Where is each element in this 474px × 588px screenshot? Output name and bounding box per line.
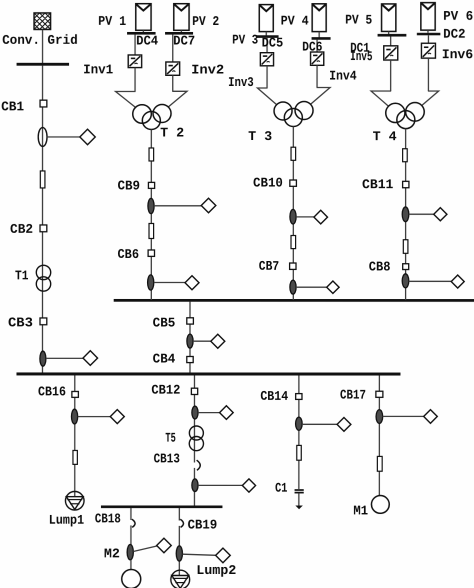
svg-text:T5: T5 xyxy=(165,431,176,446)
measurement diamond xyxy=(424,410,438,424)
line reactor on CB14 chain xyxy=(297,445,302,460)
wire to diamond xyxy=(154,205,202,207)
wire to diamond (slanted) xyxy=(133,546,157,552)
CT ellipse on CB16 chain xyxy=(71,409,77,424)
svg-text:PV 3: PV 3 xyxy=(232,32,258,47)
svg-text:CB1: CB1 xyxy=(1,99,24,114)
CT ellipse on T3 feeder upper xyxy=(290,209,296,224)
svg-text:CB6: CB6 xyxy=(118,247,140,262)
svg-text:CB17: CB17 xyxy=(340,388,366,403)
wire Inv4 down xyxy=(316,65,318,87)
CT ellipse on T4 feeder upper xyxy=(402,207,409,222)
terminal DC7 xyxy=(165,32,193,35)
wire bus B3 to Lump2 xyxy=(178,508,180,576)
svg-text:Lump2: Lump2 xyxy=(196,563,236,578)
PV panel PV 1 xyxy=(136,4,151,31)
wire to measurement diamond xyxy=(46,357,84,359)
inverter Inv6 xyxy=(421,43,435,58)
wire DC6 to inverter Inv4 xyxy=(316,39,318,52)
transformer T4 xyxy=(386,103,425,129)
svg-text:CB12: CB12 xyxy=(151,383,180,398)
PV panel PV 5 xyxy=(382,4,396,32)
breaker CB3 xyxy=(40,318,47,325)
wire DC5 to inverter Inv3 xyxy=(266,38,268,53)
svg-text:CB8: CB8 xyxy=(369,259,391,274)
svg-text:PV 6: PV 6 xyxy=(443,9,473,24)
svg-text:CB16: CB16 xyxy=(38,384,66,399)
wire Inv1 down xyxy=(134,68,136,92)
wire Inv3 down xyxy=(266,66,268,88)
breaker CB12 xyxy=(191,388,197,394)
PV panel PV 6 xyxy=(421,3,435,31)
motor M1 (circle) xyxy=(371,496,389,514)
wire to diamond xyxy=(193,340,211,342)
svg-text:CB18: CB18 xyxy=(95,511,121,526)
wire bus B3 to M2 xyxy=(130,508,132,545)
terminal DC1 xyxy=(378,34,407,37)
wire to diamond xyxy=(296,286,327,288)
wire to diamond xyxy=(198,484,243,486)
breaker CB10 xyxy=(290,180,297,186)
wire jog right into T3 xyxy=(311,88,331,105)
wire jog right into T2 xyxy=(168,91,187,107)
breaker CB11 xyxy=(403,181,409,187)
inverter Inv3 xyxy=(260,53,273,66)
wire main bus to C1 (CB14 chain) xyxy=(298,376,300,490)
transformer T5 xyxy=(189,426,203,451)
svg-text:Lump1: Lump1 xyxy=(49,513,84,528)
wire jog left into T4 xyxy=(371,91,391,106)
measurement diamond xyxy=(83,351,98,366)
CT ellipse (open) on CB1 feeder xyxy=(38,128,47,147)
breaker CB14 xyxy=(296,394,302,400)
svg-text:DC5: DC5 xyxy=(262,36,284,51)
svg-text:Inv1: Inv1 xyxy=(83,62,113,77)
capacitor C1 plates xyxy=(295,489,304,491)
wire Inv6 down xyxy=(427,58,429,91)
line reactor on T4 feeder xyxy=(403,149,408,162)
wire to diamond xyxy=(154,281,185,283)
measurement diamond xyxy=(185,276,199,290)
line reactor on T2 feeder lower xyxy=(149,223,154,238)
wire PV2 to DC7 terminal xyxy=(180,30,182,32)
wire T3 to bus B2 xyxy=(292,127,294,301)
transformer T1 xyxy=(36,265,50,291)
wire to diamond xyxy=(383,415,424,417)
wire DC7 to inverter Inv2 xyxy=(172,34,174,62)
breaker CB4 xyxy=(187,356,193,362)
svg-text:T 2: T 2 xyxy=(160,125,184,140)
svg-text:T1: T1 xyxy=(15,268,29,283)
wire to diamond xyxy=(182,554,216,555)
breaker CB1 xyxy=(40,100,47,107)
svg-text:CB11: CB11 xyxy=(362,177,393,192)
measurement diamond xyxy=(242,479,255,492)
wire to diamond xyxy=(78,416,111,418)
wire Inv2 down xyxy=(172,75,174,91)
measurement diamond xyxy=(201,198,216,213)
wire to diamond xyxy=(198,412,220,414)
svg-text:Inv4: Inv4 xyxy=(329,69,357,84)
svg-text:DC7: DC7 xyxy=(173,33,195,48)
breaker CB6 xyxy=(148,250,154,256)
open switch CB19 (arc) xyxy=(177,519,183,527)
svg-text:C1: C1 xyxy=(275,481,287,496)
svg-text:CB5: CB5 xyxy=(153,316,176,331)
open switch CB13 (arc) xyxy=(193,460,200,470)
svg-text:M1: M1 xyxy=(353,503,368,518)
inverter Inv2 xyxy=(166,62,180,75)
svg-text:CB4: CB4 xyxy=(153,352,176,367)
svg-text:PV 4: PV 4 xyxy=(281,14,309,29)
svg-text:CB13: CB13 xyxy=(154,451,180,466)
PV panel PV 4 xyxy=(312,4,326,32)
svg-text:T 3: T 3 xyxy=(248,129,272,144)
measurement diamond xyxy=(157,538,172,553)
wire to diamond xyxy=(296,216,314,218)
svg-text:CB14: CB14 xyxy=(260,389,288,404)
inverter Inv5 xyxy=(384,46,398,60)
measurement diamond xyxy=(216,548,231,563)
lamp Lump1 xyxy=(65,491,84,510)
wire PV3 to DC5 terminal xyxy=(265,32,267,36)
transformer T2 xyxy=(133,104,171,129)
svg-text:CB7: CB7 xyxy=(259,259,279,274)
open switch CB18 (arc) xyxy=(129,519,135,527)
wire T2 to bus B2 xyxy=(150,129,152,300)
measurement diamond xyxy=(110,410,124,424)
measurement diamond xyxy=(80,129,95,144)
svg-text:PV 5: PV 5 xyxy=(345,13,372,28)
measurement diamond xyxy=(314,210,328,224)
CT ellipse on T2 feeder lower xyxy=(148,275,154,290)
breaker CB16 xyxy=(72,391,79,397)
breaker CB7 xyxy=(290,263,296,269)
wire main bus to M1 (CB17 chain) xyxy=(378,376,380,496)
svg-text:CB10: CB10 xyxy=(253,176,283,191)
PV panel PV 2 xyxy=(174,4,189,31)
svg-text:CB2: CB2 xyxy=(10,222,33,237)
measurement diamond xyxy=(434,208,447,221)
terminal DC6 xyxy=(312,37,331,40)
wire main bus to bus B3 (CB12/T5 chain) xyxy=(193,375,195,506)
CT ellipse on CB12 chain xyxy=(192,406,198,419)
wire PV1 to DC4 terminal xyxy=(142,30,144,32)
terminal DC5 xyxy=(256,35,279,38)
line reactor on T3 feeder xyxy=(291,147,296,160)
wire PV5 to DC1 terminal xyxy=(388,31,390,34)
CT ellipse on CB5 chain xyxy=(187,334,193,348)
breaker CB9 xyxy=(148,182,154,188)
terminal DC4 xyxy=(127,32,156,35)
inverter Inv4 xyxy=(311,52,324,65)
line reactor on T3 feeder lower xyxy=(291,236,296,249)
wire DC4 to inverter Inv1 xyxy=(134,34,136,55)
svg-text:DC6: DC6 xyxy=(302,40,322,55)
svg-text:Inv2: Inv2 xyxy=(191,62,224,77)
wire capacitor to ground arrow xyxy=(298,493,300,505)
bus B1 (Conv. Grid bus) xyxy=(17,63,70,66)
CT ellipse on CB14 chain xyxy=(296,417,303,430)
line reactor on CB17 chain xyxy=(377,456,382,471)
wire PV4 to DC6 terminal xyxy=(318,32,320,38)
CT ellipse on CB13 chain xyxy=(192,479,198,492)
svg-text:DC4: DC4 xyxy=(136,33,158,48)
measurement diamond xyxy=(337,418,351,432)
breaker CB5 xyxy=(187,318,194,324)
external grid Conv. Grid xyxy=(18,13,68,30)
measurement diamond xyxy=(451,275,464,288)
CT ellipse on T3 feeder lower xyxy=(290,280,296,294)
CT ellipse (filled) on CB3 feeder xyxy=(40,351,46,366)
CT ellipse on CB17 chain xyxy=(376,410,383,424)
wire T4 to bus B2 xyxy=(405,129,407,300)
line reactor symbol xyxy=(40,171,45,188)
svg-text:DC2: DC2 xyxy=(443,27,465,42)
wire bus B1 down to main bus xyxy=(41,65,43,372)
svg-text:PV 1: PV 1 xyxy=(98,14,126,29)
wire grid box to bus B1 xyxy=(42,29,44,63)
svg-text:Conv. Grid: Conv. Grid xyxy=(2,33,78,48)
wire jog left into T3 xyxy=(257,88,276,105)
PV panel PV 3 xyxy=(259,5,273,32)
transformer T3 xyxy=(274,102,313,127)
wire PV6 to DC2 terminal xyxy=(427,30,429,33)
wire main bus to Lump1 (CB16 chain) xyxy=(74,375,76,497)
wire to diamond xyxy=(409,213,434,215)
CT ellipse on M2 chain xyxy=(127,544,133,559)
svg-text:T 4: T 4 xyxy=(373,129,397,144)
bus B3 (low-voltage bus) xyxy=(101,505,223,508)
breaker CB2 xyxy=(40,225,47,232)
line reactor on T2 feeder xyxy=(149,148,154,161)
svg-text:Inv5: Inv5 xyxy=(350,49,372,64)
wire jog left into T2 xyxy=(116,91,136,107)
breaker CB8 xyxy=(403,264,409,270)
svg-text:PV 2: PV 2 xyxy=(192,14,219,29)
wire to diamond xyxy=(302,423,338,425)
CT ellipse on T2 feeder upper xyxy=(148,198,154,213)
measurement diamond xyxy=(211,334,225,348)
wire bus B2 to main bus (CB5/CB4 chain) xyxy=(189,301,191,372)
CT ellipse on T4 feeder lower xyxy=(402,274,409,288)
line reactor on T4 feeder lower xyxy=(403,240,408,254)
breaker CB17 xyxy=(376,391,383,397)
inverter Inv1 xyxy=(128,55,141,68)
motor M2 (circle) xyxy=(122,569,141,588)
terminal DC2 xyxy=(417,33,441,36)
wire to measurement diamond xyxy=(47,136,80,138)
svg-text:CB3: CB3 xyxy=(8,315,33,330)
wire DC1 to inverter Inv5 xyxy=(390,36,392,45)
CT ellipse on Lump2 chain xyxy=(176,546,182,561)
wire DC2 to inverter Inv6 xyxy=(427,35,429,43)
lamp Lump2 xyxy=(171,570,190,588)
svg-text:CB19: CB19 xyxy=(188,517,218,532)
svg-text:M2: M2 xyxy=(104,546,120,561)
svg-text:CB9: CB9 xyxy=(118,178,141,193)
wire ellipse to motor M2 xyxy=(130,560,132,570)
line reactor on CB16 chain xyxy=(73,450,77,464)
ground arrow of C1 xyxy=(295,506,303,510)
wire to diamond xyxy=(409,280,452,282)
svg-text:Inv6: Inv6 xyxy=(442,47,473,62)
measurement diamond xyxy=(327,281,339,293)
main bus (lower distribution bus) xyxy=(16,372,400,375)
wire jog right into T4 xyxy=(422,91,439,105)
wire Inv5 down xyxy=(390,60,392,91)
svg-text:Inv3: Inv3 xyxy=(228,75,254,90)
bus B2 (PV collector bus) xyxy=(114,299,474,302)
measurement diamond xyxy=(220,406,234,420)
